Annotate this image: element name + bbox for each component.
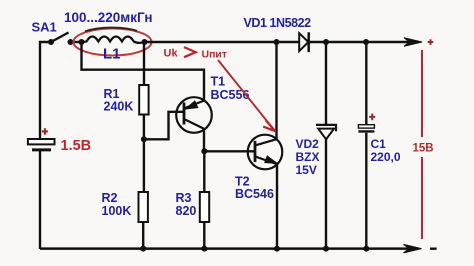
output arrow head (bottom, -) [404, 244, 422, 253]
diode VD1 triangle [299, 33, 308, 51]
inductor L1 coil [82, 37, 145, 43]
capacitor C1 plus mark [369, 114, 375, 121]
svg-text:100...220мкГн: 100...220мкГн [64, 10, 153, 25]
node: R3 on bottom rail [201, 246, 207, 252]
resistor R1 body [139, 85, 148, 115]
node: T1 collector / R3 / T2 base junction [201, 148, 207, 154]
output minus mark [430, 247, 437, 249]
wire: C1 top lead [365, 42, 367, 125]
svg-text:240K: 240K [104, 100, 134, 114]
svg-text:BZX: BZX [296, 150, 320, 164]
svg-text:820: 820 [176, 204, 197, 218]
annotation greater-than [184, 47, 196, 57]
svg-text:15В: 15В [413, 143, 434, 155]
svg-text:VD1 1N5822: VD1 1N5822 [244, 16, 312, 30]
wire: from L1 left node down and across to T1 emitter [82, 42, 205, 101]
node: VD2 on bottom rail [323, 246, 329, 252]
wire: C1 bottom lead [365, 133, 367, 249]
svg-text:15V: 15V [296, 163, 317, 177]
transistor T2 base bar [254, 141, 257, 162]
wire: R1 bottom to R2 top [143, 115, 145, 193]
wire: top rail from VD1 to output arrow [309, 41, 414, 44]
wire: T2 emitter down to bottom rail [276, 163, 278, 249]
diode VD1 cathode bar [307, 32, 310, 52]
svg-text:VD2: VD2 [296, 137, 320, 151]
svg-text:BC556: BC556 [211, 88, 250, 102]
transistor T1 BC556 circle [176, 97, 212, 133]
transistor T1 base bar [183, 103, 186, 125]
wire: T2 collector up to top rail [275, 42, 277, 140]
wire: battery - down to bottom rail [39, 151, 41, 249]
dark top arc of highlight ellipse [85, 28, 137, 32]
wire: junction down to R3 [203, 151, 205, 192]
switch SA1: lever [51, 33, 69, 43]
svg-text:BC546: BC546 [235, 187, 274, 201]
node: T2 collector on top rail [274, 39, 280, 45]
transistor T1 collector (to bottom) [185, 120, 204, 129]
capacitor C1 top plate [358, 125, 374, 128]
svg-text:L1: L1 [103, 46, 121, 63]
node: R1/R2/T1-base junction [141, 136, 147, 142]
wire: from L1 right node down to R1 [143, 42, 145, 85]
red output voltage measurement line (upper segment) [421, 50, 423, 137]
node: inductor right junction [142, 39, 148, 45]
node: VD2 on top rail [323, 39, 329, 45]
bottom rail wire [40, 247, 414, 250]
wire: junction to T1 base [144, 112, 184, 140]
transistor T2 collector (to top) [256, 139, 277, 145]
output arrow head (top, +) [404, 38, 422, 47]
battery GB 1.5V: top plate (+) [28, 139, 55, 144]
battery GB 1.5V: bottom plate (-) [32, 148, 51, 151]
resistor R3 body [200, 192, 209, 222]
node: C1 on top rail [363, 39, 369, 45]
red annotation arrow from Upit to T2 collector [218, 60, 274, 130]
svg-text:R3: R3 [176, 191, 192, 205]
transistor T2 BC546 circle [248, 135, 283, 170]
wire: R3 bottom to bottom rail [203, 222, 205, 249]
resistor R2 body [139, 192, 148, 222]
node: T2 emitter on bottom rail [274, 246, 280, 252]
wire: R2 bottom to bottom rail [142, 222, 144, 249]
node: C1 on bottom rail [363, 246, 369, 252]
svg-text:T1: T1 [211, 75, 226, 89]
output plus mark [428, 39, 434, 45]
wire: top rail from L1 to diode VD1 anode [145, 41, 300, 44]
node: inductor left junction [79, 39, 85, 45]
node: R2 on bottom rail [140, 246, 146, 252]
wire: T1 collector down to junction [203, 129, 205, 151]
zener VD2 triangle [318, 129, 334, 140]
wire: VD2 bottom lead [325, 139, 327, 248]
battery plus mark [42, 128, 48, 135]
svg-text:100K: 100K [102, 204, 132, 218]
wire: switch to inductor [71, 41, 85, 43]
transistor T2 emitter (to bottom) with NPN arrow [256, 157, 277, 164]
wire: VD2 top lead [325, 42, 327, 125]
red output voltage measurement line (lower segment) [421, 157, 423, 239]
wire: junction to T2 base [204, 150, 255, 152]
switch SA1: left contact dot [48, 39, 54, 45]
zener VD2 cathode bar with right hook [316, 125, 336, 131]
red ellipse highlight around L1 [74, 29, 152, 56]
svg-text:Uпит: Uпит [202, 49, 228, 61]
transistor T1 emitter (to top) with PNP arrow [185, 101, 204, 108]
svg-text:1.5В: 1.5В [61, 138, 92, 154]
switch SA1: right contact dot [68, 39, 74, 45]
capacitor C1 bottom plate [358, 130, 374, 132]
svg-text:Uk: Uk [164, 48, 179, 60]
svg-text:C1: C1 [371, 137, 387, 151]
svg-text:SA1: SA1 [32, 20, 57, 35]
svg-text:R2: R2 [102, 191, 118, 205]
svg-text:220,0: 220,0 [371, 150, 401, 164]
wire: left vertical from top rail to battery + [40, 42, 51, 139]
